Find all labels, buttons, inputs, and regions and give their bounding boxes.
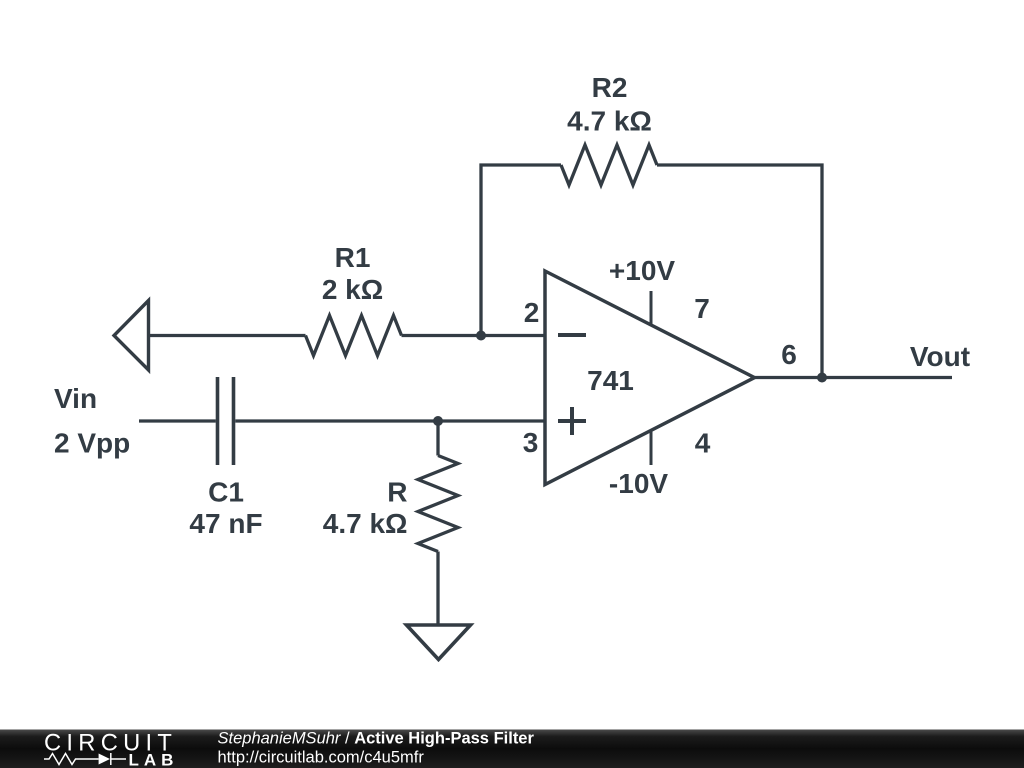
wire: op-amp output to Vout <box>755 376 953 379</box>
svg-text:R1: R1 <box>335 242 371 273</box>
capacitor C1 plate left <box>216 377 220 465</box>
node: junction C1 wire / resistor R <box>433 416 443 426</box>
node: output junction with feedback <box>817 373 827 383</box>
svg-text:+10V: +10V <box>609 255 675 286</box>
svg-text:LAB: LAB <box>129 751 179 768</box>
input net flag arrow <box>114 301 149 371</box>
resistor R2 <box>561 145 657 185</box>
svg-text:http://circuitlab.com/c4u5mfr: http://circuitlab.com/c4u5mfr <box>218 749 425 767</box>
resistor R1 <box>306 316 402 356</box>
svg-text:R: R <box>387 477 407 508</box>
svg-text:4.7 kΩ: 4.7 kΩ <box>567 106 652 137</box>
wire: R bottom to ground <box>436 552 439 626</box>
svg-text:6: 6 <box>781 339 797 370</box>
svg-text:7: 7 <box>694 293 710 324</box>
svg-text:StephanieMSuhr / Active High-P: StephanieMSuhr / Active High-Pass Filter <box>218 730 535 748</box>
wire: C1 to op-amp pin 3 <box>235 419 545 422</box>
svg-text:3: 3 <box>523 427 539 458</box>
op-amp V- power stub pin 4 <box>650 430 653 465</box>
ground <box>407 625 471 660</box>
wire: feedback left vertical from R1/pin2 node up to R2 row <box>481 165 561 336</box>
op-amp minus input marker <box>558 333 586 337</box>
capacitor C1 plate right <box>232 377 236 465</box>
svg-text:47 nF: 47 nF <box>189 508 262 539</box>
svg-text:4.7 kΩ: 4.7 kΩ <box>323 508 408 539</box>
svg-text:2 kΩ: 2 kΩ <box>322 274 383 305</box>
footer bar <box>0 730 1024 768</box>
wire: input left to R1 <box>149 334 306 337</box>
svg-text:2 Vpp: 2 Vpp <box>54 428 130 459</box>
wire: R2 right to output node <box>657 165 822 378</box>
op-amp V+ power stub pin 7 <box>650 291 653 325</box>
svg-text:Vin: Vin <box>54 383 97 414</box>
logo resistor-diode glyph <box>44 753 126 765</box>
wire: Vin to capacitor C1 <box>139 419 216 422</box>
resistor R (vertical) <box>418 456 458 552</box>
svg-text:R2: R2 <box>592 72 628 103</box>
svg-text:741: 741 <box>587 365 634 396</box>
wire: node to resistor R top <box>436 421 439 456</box>
svg-text:4: 4 <box>695 428 711 459</box>
wire: R1 to op-amp pin 2 <box>402 334 546 337</box>
op-amp plus input marker <box>558 407 586 435</box>
svg-text:-10V: -10V <box>609 468 668 499</box>
svg-text:C1: C1 <box>208 477 244 508</box>
svg-text:2: 2 <box>524 297 540 328</box>
op-amp U1 triangle <box>545 271 755 485</box>
svg-text:Vout: Vout <box>910 341 970 372</box>
node: junction R1/feedback at pin2 wire <box>476 331 486 341</box>
